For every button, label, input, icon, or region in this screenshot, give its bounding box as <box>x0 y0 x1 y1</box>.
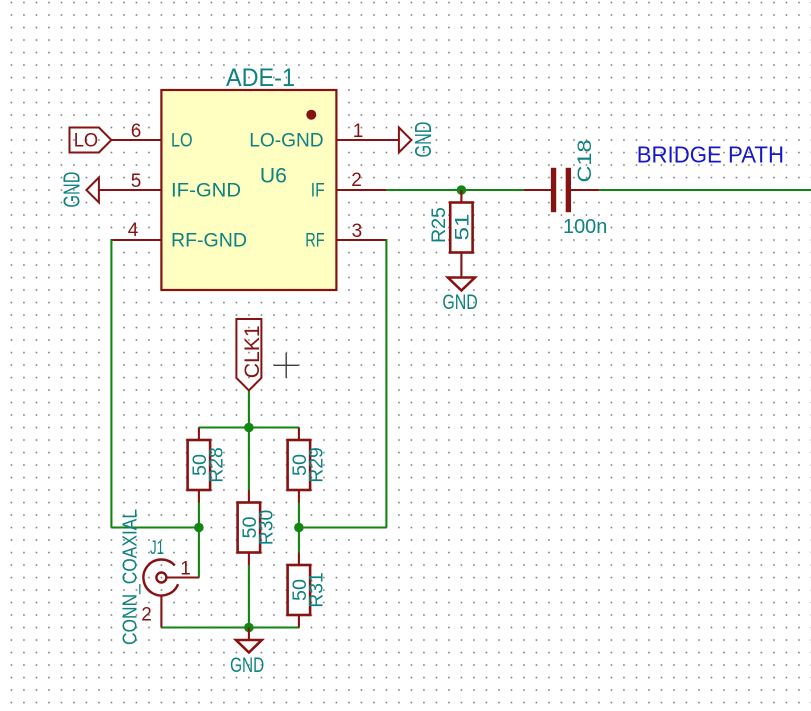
resistor R29 body <box>288 440 311 490</box>
svg-text:C18: C18 <box>574 140 596 183</box>
junction bottom node <box>244 623 254 633</box>
svg-text:IF-GND: IF-GND <box>171 179 241 201</box>
wire RF-GND bottom horizontal <box>111 526 198 528</box>
IC U6 ADE-1 body <box>161 90 336 290</box>
svg-text:LO: LO <box>74 130 98 152</box>
wire CLK1 drop <box>248 390 250 427</box>
ground GND bottom stem <box>248 628 250 641</box>
svg-text:U6: U6 <box>260 165 287 188</box>
wire RF bottom horizontal <box>299 526 387 528</box>
svg-text:51: 51 <box>451 214 473 241</box>
resistor R30 pins <box>248 490 250 503</box>
svg-text:2: 2 <box>351 170 362 191</box>
svg-text:4: 4 <box>128 220 139 241</box>
connector J1 pin 2 <box>160 596 162 628</box>
resistor R30 body <box>238 503 261 553</box>
svg-text:R25: R25 <box>428 207 450 243</box>
wire RF vertical <box>385 239 387 528</box>
capacitor C18 pins <box>524 189 551 191</box>
svg-text:R28: R28 <box>205 447 227 483</box>
junction CLK1 node <box>244 423 254 433</box>
resistor R25 body <box>450 203 472 253</box>
svg-text:RF-GND: RF-GND <box>171 229 247 251</box>
global label CLK1 shape <box>236 319 261 390</box>
resistor R25 pins <box>460 190 462 203</box>
ground GND bottom symbol <box>236 640 262 653</box>
pin 3 <box>336 239 386 241</box>
wire IF left segment <box>386 189 524 191</box>
svg-text:100n: 100n <box>563 216 607 238</box>
wire R30 bottom <box>248 565 250 628</box>
junction IF node <box>457 185 467 195</box>
svg-text:1: 1 <box>353 121 364 142</box>
svg-text:R31: R31 <box>305 572 327 608</box>
svg-text:5: 5 <box>131 171 142 192</box>
svg-text:GND: GND <box>230 654 264 677</box>
wire R28 to J1 pin1 <box>198 528 200 578</box>
svg-text:CONN_COAXIAL: CONN_COAXIAL <box>120 509 142 645</box>
svg-text:ADE-1: ADE-1 <box>226 64 295 92</box>
wire R31 top <box>298 528 300 553</box>
wire R30 top drop <box>248 428 250 491</box>
svg-text:R30: R30 <box>255 510 277 546</box>
svg-text:1: 1 <box>180 559 191 580</box>
resistor R29 pins <box>298 428 300 441</box>
svg-text:6: 6 <box>131 121 142 142</box>
wire RF-GND vertical <box>110 239 112 528</box>
svg-text:R29: R29 <box>305 447 327 483</box>
svg-text:LO: LO <box>171 130 193 152</box>
wire IF right segment <box>599 189 811 191</box>
svg-text:IF: IF <box>311 179 325 201</box>
wire bottom rail <box>161 626 299 628</box>
resistor R31 body <box>288 565 311 615</box>
svg-text:GND: GND <box>58 172 84 208</box>
hier label GND left shape <box>86 178 99 203</box>
pin 1 <box>336 139 399 141</box>
hier label GND right shape <box>399 128 412 153</box>
pin 5 <box>99 189 161 191</box>
svg-text:BRIDGE PATH: BRIDGE PATH <box>637 142 784 168</box>
svg-text:J1: J1 <box>150 537 164 559</box>
junction right rail node <box>294 523 304 533</box>
connector J1 pin 1 <box>166 576 199 578</box>
ground GND R25 symbol <box>448 278 475 291</box>
pin 4 <box>111 239 161 241</box>
resistor R31 pins <box>298 553 300 566</box>
svg-text:RF: RF <box>305 229 324 251</box>
wire R29 bottom <box>298 503 300 528</box>
svg-text:3: 3 <box>352 221 363 242</box>
svg-text:CLK1: CLK1 <box>240 325 264 378</box>
cursor crosshair <box>274 353 299 378</box>
svg-text:LO-GND: LO-GND <box>249 130 323 152</box>
wire top rail <box>199 426 299 428</box>
svg-text:2: 2 <box>141 604 152 625</box>
connector J1 shield arc <box>143 560 178 596</box>
resistor R28 pins <box>198 428 200 441</box>
capacitor C18 plates <box>551 168 571 212</box>
svg-text:GND: GND <box>410 122 436 158</box>
pin 2 <box>336 189 386 191</box>
junction left rail node <box>194 523 204 533</box>
wire R28 bottom <box>198 503 200 528</box>
polarity dot <box>306 110 316 120</box>
connector J1 center circle <box>156 573 166 583</box>
pin 6 <box>111 139 161 141</box>
resistor R28 body <box>188 440 211 490</box>
svg-text:GND: GND <box>442 291 477 314</box>
global label LO shape <box>70 128 112 153</box>
